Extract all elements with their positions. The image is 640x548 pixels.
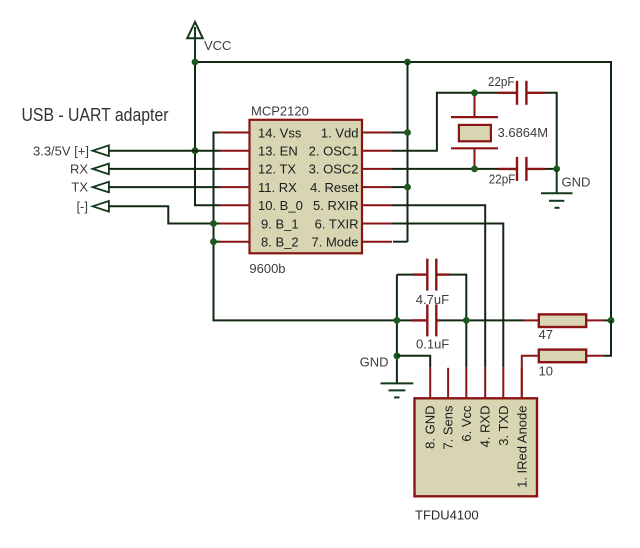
wire supply node horizontal (0.1uF row to resistor 47) — [440, 319, 524, 321]
svg-text:4.7uF: 4.7uF — [416, 292, 449, 307]
svg-text:TFDU4100: TFDU4100 — [415, 508, 479, 523]
svg-text:9. B_1: 9. B_1 — [261, 216, 299, 231]
svg-text:[-]: [-] — [76, 199, 88, 214]
wire 10 left to TFDU IRed anode — [522, 356, 523, 399]
power symbol VCC — [187, 22, 203, 62]
IC U1 MCP2120 body — [250, 120, 363, 254]
svg-text:8. GND: 8. GND — [423, 406, 438, 449]
terminal arrow RX — [93, 164, 109, 175]
U1 pin 10 B_0 — [219, 198, 303, 213]
U2 pin 7 Sens — [441, 368, 456, 450]
svg-text:3.3/5V [+]: 3.3/5V [+] — [33, 143, 89, 158]
svg-text:7. Mode: 7. Mode — [312, 235, 359, 250]
wire B_2 short link — [214, 241, 221, 243]
wire 4.7uF right to TFDU Vcc — [450, 275, 466, 368]
U2 pin 8 GND — [423, 368, 438, 449]
resistor 10 — [523, 350, 604, 363]
svg-text:5. RXIR: 5. RXIR — [313, 198, 359, 213]
svg-text:4. Reset: 4. Reset — [310, 180, 359, 195]
wire RXIR to TFDU RXD — [392, 205, 485, 367]
ground symbol (caps) — [381, 383, 414, 397]
node: junction crystal bottom / OSC2 wire — [471, 166, 478, 173]
node: junction 22pF GND corner — [553, 166, 560, 173]
svg-text:TX: TX — [71, 180, 88, 195]
U1 pin 9 B_1 — [219, 216, 299, 231]
svg-text:MCP2120: MCP2120 — [251, 104, 309, 119]
wire 3.3/5V to pin 13 EN — [109, 150, 220, 152]
wire 10 right lead up to node — [604, 320, 611, 355]
U1 pin 13 EN — [219, 144, 298, 159]
U1 pin 8 B_2 — [219, 235, 299, 250]
wire VCC top horizontal — [195, 61, 611, 63]
wire TX to pin 11 RX — [109, 186, 220, 188]
terminal arrow [-] — [93, 201, 109, 212]
svg-text:4. RXD: 4. RXD — [478, 406, 493, 448]
node: junction crystal top / OSC1 wire — [471, 89, 478, 96]
wire 4.7uF left lead link — [397, 274, 413, 276]
U1 pin 6 TXIR — [315, 216, 392, 231]
U1 pin 12 TX — [219, 162, 296, 177]
svg-text:USB - UART adapter: USB - UART adapter — [22, 104, 169, 125]
svg-text:22pF: 22pF — [489, 172, 516, 187]
wire RX to pin 12 TX — [109, 168, 220, 170]
U1 pin 11 RX — [219, 180, 297, 195]
svg-text:GND: GND — [562, 175, 591, 190]
svg-text:1. Vdd: 1. Vdd — [321, 125, 359, 140]
node: junction GND rail / TFDU GND wire — [394, 352, 401, 359]
wire bottom 22pF to GND — [545, 168, 557, 170]
resistor 47 — [524, 314, 612, 327]
svg-text:9600b: 9600b — [249, 261, 285, 276]
svg-text:47: 47 — [539, 327, 553, 342]
svg-text:2. OSC1: 2. OSC1 — [309, 144, 359, 159]
svg-text:3. TXD: 3. TXD — [496, 406, 511, 446]
node: junction B_2 row on ground rail — [210, 238, 217, 245]
U1 pin 2 OSC1 — [309, 144, 392, 159]
wire GND rail vertical (caps left) — [396, 275, 398, 384]
svg-text:13. EN: 13. EN — [258, 144, 298, 159]
wire Vss ground rail (pin 14 down and right to GND net) — [214, 133, 413, 321]
wire VCC drop to pin 10 B_0 — [195, 62, 220, 205]
wire right VCC rail vertical — [610, 61, 612, 320]
svg-text:VCC: VCC — [204, 38, 231, 53]
svg-text:3.6864M: 3.6864M — [498, 125, 549, 140]
node: junction GND rail / Vss wire / 0.1uF — [394, 317, 401, 324]
wire TXIR to TFDU TXD — [392, 224, 503, 368]
wire crystal top to GND drop (right of top 22pF) — [545, 93, 557, 169]
svg-text:0.1uF: 0.1uF — [416, 336, 449, 351]
U2 pin 1 IRed Anode — [514, 368, 529, 488]
U1 pin 14 Vss — [219, 125, 302, 140]
wire [-] elbow to B_1 row — [109, 206, 220, 223]
U2 pin 4 RXD — [478, 368, 493, 448]
crystal X1 3.6864M — [451, 93, 498, 169]
node: junction top wire / Vdd drop — [404, 59, 411, 66]
node: junction VCC tap — [192, 59, 199, 66]
node: junction Reset row — [404, 184, 411, 191]
U1 pin 3 OSC2 — [309, 162, 392, 177]
svg-text:10. B_0: 10. B_0 — [258, 198, 303, 213]
svg-text:GND: GND — [360, 355, 389, 370]
wire TFDU GND elbow — [397, 356, 430, 368]
ground symbol (crystal) — [541, 169, 573, 208]
U1 pin 4 Reset — [310, 180, 392, 195]
svg-text:1. IRed Anode: 1. IRed Anode — [514, 406, 529, 488]
capacitor 22pF (top) — [498, 81, 545, 105]
capacitor 0.1uF — [412, 304, 440, 336]
U2 pin 6 Vcc — [459, 368, 474, 442]
svg-text:22pF: 22pF — [488, 74, 515, 89]
terminal arrow TX — [93, 182, 109, 193]
node: junction 47 right / rail — [608, 317, 615, 324]
wire OSC2 to bottom 22pF — [392, 168, 498, 170]
svg-text:12. TX: 12. TX — [258, 162, 296, 177]
node: junction Vdd row — [404, 129, 411, 136]
capacitor 22pF (bottom) — [498, 157, 545, 181]
svg-text:3. OSC2: 3. OSC2 — [309, 162, 359, 177]
svg-text:6. Vcc: 6. Vcc — [459, 405, 474, 442]
svg-text:8. B_2: 8. B_2 — [261, 235, 299, 250]
terminal arrow 3.3/5V — [93, 145, 109, 156]
U1 pin 5 RXIR — [313, 198, 392, 213]
svg-text:RX: RX — [70, 162, 88, 177]
svg-text:10: 10 — [539, 363, 553, 378]
node: junction B_1 row on ground rail — [210, 220, 217, 227]
svg-text:11. RX: 11. RX — [258, 180, 297, 195]
wire OSC1 to crystal top — [392, 93, 498, 151]
wire Vdd/Reset/Mode VCC column — [392, 62, 408, 242]
node: junction 3.3/5V wire with VCC drop — [192, 147, 199, 154]
svg-text:14. Vss: 14. Vss — [258, 125, 302, 140]
U2 pin 3 TXD — [496, 368, 511, 446]
svg-text:7. Sens: 7. Sens — [441, 405, 456, 450]
U1 pin 1 Vdd — [321, 125, 392, 140]
capacitor 4.7uF — [413, 259, 450, 291]
node: junction supply wire / TFDU Vcc drop — [463, 317, 470, 324]
U1 pin 7 Mode — [312, 235, 392, 250]
IC U2 TFDU4100 body — [415, 398, 538, 496]
svg-text:6. TXIR: 6. TXIR — [315, 216, 359, 231]
